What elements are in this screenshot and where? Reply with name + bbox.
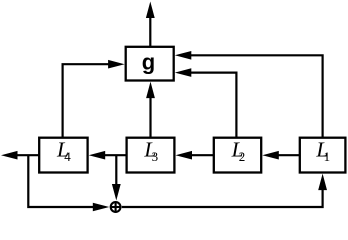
svg-text:3: 3 [152, 149, 159, 164]
svg-text:g: g [142, 50, 155, 75]
svg-text:4: 4 [64, 149, 71, 164]
svg-text:2: 2 [239, 149, 246, 164]
svg-text:1: 1 [324, 149, 331, 164]
